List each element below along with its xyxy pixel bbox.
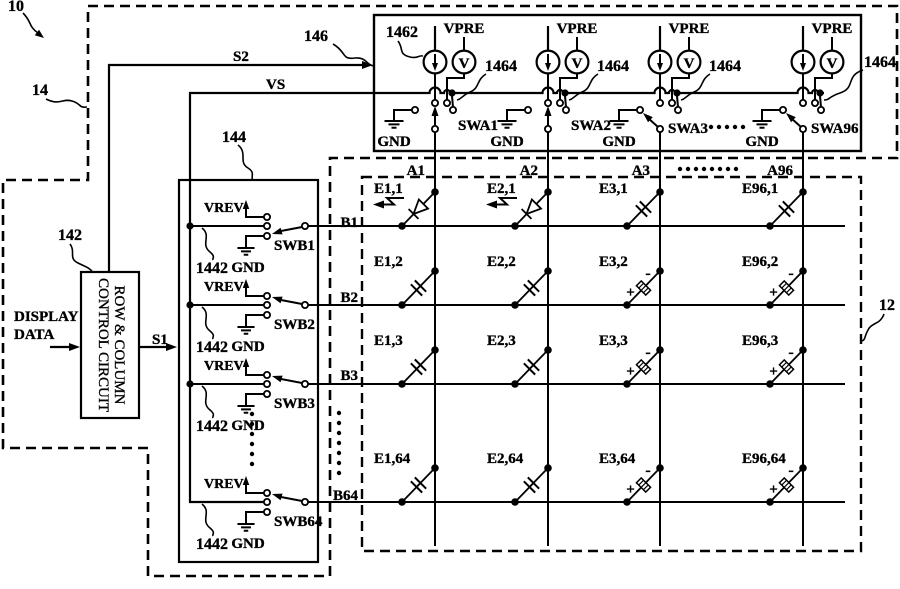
VREV source for switch SWB3: [204, 358, 267, 375]
element E2,3 (capacitor element): [487, 333, 552, 388]
ground for switch SWA3: [602, 110, 637, 150]
VS bus line inside box 146 (with hops): [374, 88, 824, 93]
label 142 with leader: [58, 227, 92, 271]
svg-text:-: -: [645, 344, 650, 361]
element E96,2 (charged EL element): [742, 254, 807, 309]
wire: current source down to switch contact (A1): [434, 73, 436, 100]
svg-text:E3,64: E3,64: [599, 451, 636, 467]
element E3,2 (charged EL element): [599, 254, 664, 309]
svg-text:GND: GND: [231, 260, 265, 276]
label 1442 for SWB3 with leader: [196, 386, 228, 435]
signal VS wire: [190, 77, 374, 180]
svg-text:CONTROL CIRCUIT: CONTROL CIRCUIT: [95, 278, 111, 412]
svg-text:GND: GND: [745, 134, 779, 150]
display panel boundary 12 (dashed box): [362, 177, 861, 551]
current source 1462 unit for column A1: [424, 26, 447, 73]
element E3,1 (capacitor element): [599, 181, 664, 230]
ground for switch SWB64: [231, 512, 267, 552]
element E96,3 (charged EL element): [742, 333, 807, 388]
svg-text:E2,1: E2,1: [487, 181, 516, 197]
svg-text:GND: GND: [490, 134, 524, 150]
svg-text:SWA3: SWA3: [668, 121, 708, 137]
svg-text:SWA96: SWA96: [811, 121, 859, 137]
switch SWB2 contacts: [264, 293, 270, 318]
node: VS bus tap dot for SWA3: [673, 89, 680, 107]
svg-text:E1,64: E1,64: [374, 451, 411, 467]
svg-text:E96,3: E96,3: [742, 333, 778, 349]
svg-text:1464: 1464: [864, 54, 896, 71]
label 1464 (SWA96) with leader: [824, 54, 896, 100]
svg-text:VPRE: VPRE: [669, 21, 710, 37]
wire: VPRE source down to switch contact (A96): [815, 73, 832, 100]
svg-text:1442: 1442: [196, 418, 228, 435]
svg-text:E3,2: E3,2: [599, 254, 628, 270]
column line A96: [802, 132, 804, 546]
switch SWA3 contacts: [637, 100, 681, 113]
node: bus junction at row y=305: [186, 301, 193, 308]
ground for switch SWA1: [377, 110, 412, 150]
element E3,64 (charged EL element): [599, 451, 664, 506]
svg-text:GND: GND: [377, 134, 411, 150]
svg-text:SWB1: SWB1: [274, 238, 315, 254]
row line B3: [308, 383, 845, 385]
switch SWA2 pole and arm: [545, 106, 612, 134]
svg-text:SWB3: SWB3: [274, 396, 315, 412]
node: bus junction at row y=384: [186, 380, 193, 387]
switch SWB1 pole and arm: [272, 223, 315, 254]
svg-text:E1,1: E1,1: [374, 181, 403, 197]
svg-text:10: 10: [8, 0, 24, 15]
switch SWB64 contacts: [264, 490, 270, 515]
svg-text:V: V: [684, 56, 695, 72]
vertical ellipsis left of display panel: [337, 411, 341, 475]
svg-text:B2: B2: [340, 290, 358, 306]
element E2,2 (capacitor element): [487, 254, 552, 309]
svg-text:SWA2: SWA2: [571, 118, 611, 134]
node: VS bus tap dot for SWA1: [448, 89, 455, 107]
ground for switch SWB1: [231, 236, 267, 276]
svg-text:1442: 1442: [196, 260, 228, 277]
node: bus junction at row y=226: [186, 222, 193, 229]
svg-text:+: +: [769, 364, 778, 380]
svg-text:+: +: [626, 482, 635, 498]
wire: current source down to switch contact (A96): [802, 73, 804, 100]
svg-text:A2: A2: [520, 163, 538, 179]
svg-text:S2: S2: [233, 49, 249, 65]
svg-text:-: -: [645, 265, 650, 282]
svg-text:E3,1: E3,1: [599, 181, 628, 197]
svg-text:S1: S1: [152, 332, 168, 348]
svg-text:-: -: [788, 462, 793, 479]
svg-text:VPRE: VPRE: [812, 21, 853, 37]
element E2,64 (capacitor element): [487, 451, 552, 506]
ground for switch SWA96: [745, 110, 780, 150]
svg-text:-: -: [788, 344, 793, 361]
svg-text:DISPLAY: DISPLAY: [14, 309, 79, 325]
svg-text:V: V: [827, 56, 838, 72]
wire: VPRE source down to switch contact (A2): [560, 73, 577, 100]
svg-text:14: 14: [32, 82, 48, 99]
svg-text:V: V: [459, 56, 470, 72]
VREV source for switch SWB2: [204, 279, 267, 296]
svg-text:A3: A3: [632, 163, 650, 179]
ellipsis between SWA3 and SWA96: [709, 125, 745, 129]
label 1442 for SWB64 with leader: [196, 504, 228, 553]
svg-text:142: 142: [58, 227, 82, 244]
signal S2 wire and arrow: [109, 49, 373, 272]
svg-text:GND: GND: [602, 134, 636, 150]
svg-text:E96,2: E96,2: [742, 254, 778, 270]
current source 1462 unit for column A2: [537, 26, 560, 73]
svg-text:ROW & COLUMN: ROW & COLUMN: [111, 286, 127, 405]
column line A2: [547, 132, 549, 546]
label 1464 (SWA1) with leader: [457, 58, 517, 100]
label 1464 (SWA3) with leader: [681, 58, 741, 100]
svg-text:VREV: VREV: [204, 477, 244, 492]
voltage source VPRE for column A3: [669, 21, 710, 73]
label 1462 with leader: [386, 24, 423, 58]
svg-text:E3,3: E3,3: [599, 333, 628, 349]
svg-text:1442: 1442: [196, 339, 228, 356]
ellipsis between A3 and A96: [678, 167, 738, 171]
svg-text:+: +: [626, 364, 635, 380]
switch SWA3 pole and arm: [643, 113, 708, 137]
column line A3: [659, 132, 661, 546]
voltage source VPRE for column A2: [557, 21, 598, 73]
svg-text:-: -: [645, 462, 650, 479]
svg-text:VREV: VREV: [204, 280, 244, 295]
svg-text:GND: GND: [231, 418, 265, 434]
switch SWB2 pole and arm: [272, 297, 315, 333]
switch SWB3 contacts: [264, 372, 270, 397]
svg-text:E2,64: E2,64: [487, 451, 524, 467]
element E1,3 (capacitor element): [374, 333, 439, 388]
svg-text:VREV: VREV: [204, 359, 244, 374]
ground for switch SWB3: [231, 394, 267, 434]
label 144 with leader: [222, 129, 253, 180]
svg-text:VPRE: VPRE: [557, 21, 598, 37]
svg-text:VPRE: VPRE: [444, 21, 485, 37]
DISPLAY DATA input label: [14, 309, 79, 343]
row line B1: [308, 225, 845, 227]
svg-text:SWB64: SWB64: [274, 514, 323, 530]
svg-text:146: 146: [304, 28, 328, 45]
svg-text:12: 12: [879, 297, 895, 314]
element E3,3 (charged EL element): [599, 333, 664, 388]
signal S1 wire and arrow: [139, 332, 177, 351]
element E96,64 (charged EL element): [742, 451, 807, 506]
svg-text:B3: B3: [340, 368, 358, 384]
svg-text:-: -: [788, 265, 793, 282]
node: VS bus tap dot for SWA2: [561, 89, 568, 107]
svg-text:1462: 1462: [386, 24, 418, 41]
svg-text:GND: GND: [231, 339, 265, 355]
wire: VPRE source down to switch contact (A3): [672, 73, 689, 100]
row & column control circuit box 142: [81, 272, 139, 418]
switch SWA96 pole and arm: [786, 113, 859, 137]
row driver box 144: [179, 180, 318, 562]
svg-text:VS: VS: [266, 77, 285, 93]
label 12 with leader: [862, 297, 895, 341]
current source 1462 unit for column A3: [649, 26, 672, 73]
element E2,1 (LED): [486, 181, 552, 230]
VREV source for switch SWB1: [204, 200, 267, 217]
svg-text:1442: 1442: [196, 536, 228, 553]
svg-text:E1,3: E1,3: [374, 333, 403, 349]
wire: bus to switch contact row y=226: [190, 225, 264, 227]
ground for switch SWB2: [231, 315, 267, 355]
wire: current source down to switch contact (A2): [547, 73, 549, 100]
column driver box 146: [374, 15, 861, 151]
VREV source for switch SWB64: [204, 476, 267, 493]
switch SWA2 contacts: [525, 100, 569, 113]
column line A1: [434, 132, 436, 546]
svg-text:DATA: DATA: [14, 327, 54, 343]
current source 1462 unit for column A96: [792, 26, 815, 73]
label 1442 for SWB1 with leader: [196, 228, 228, 277]
label 10 with arrow: [8, 0, 44, 38]
VS bus inside box 144 (vertical distribution): [190, 180, 264, 502]
switch SWA1 contacts: [412, 100, 456, 113]
voltage source VPRE for column A96: [812, 21, 853, 73]
svg-text:GND: GND: [231, 536, 265, 552]
element E1,2 (capacitor element): [374, 254, 439, 309]
element E1,64 (capacitor element): [374, 451, 439, 506]
wire: current source down to switch contact (A3): [659, 73, 661, 100]
wire: bus to switch contact row y=384: [190, 383, 264, 385]
svg-text:E96,64: E96,64: [742, 451, 786, 467]
display data input arrow: [50, 343, 80, 351]
element E1,1 (LED): [373, 181, 439, 230]
label 1442 for SWB2 with leader: [196, 307, 228, 356]
switch SWA96 contacts: [780, 100, 824, 113]
switch SWB3 pole and arm: [272, 376, 315, 412]
svg-text:1464: 1464: [597, 58, 629, 75]
svg-text:+: +: [769, 482, 778, 498]
svg-text:1464: 1464: [709, 58, 741, 75]
svg-text:V: V: [572, 56, 583, 72]
label 14 with leader: [32, 82, 87, 107]
label 146 with leader: [304, 28, 373, 66]
switch SWB64 pole and arm: [272, 494, 323, 530]
wire: bus to switch contact row y=305: [190, 304, 264, 306]
ground for switch SWA2: [490, 110, 525, 150]
label 1464 (SWA2) with leader: [569, 58, 629, 100]
svg-text:VREV: VREV: [204, 201, 244, 216]
svg-text:144: 144: [222, 129, 246, 146]
switch SWB1 contacts: [264, 214, 270, 239]
wire: VPRE source down to switch contact (A1): [447, 73, 464, 100]
svg-text:E2,3: E2,3: [487, 333, 516, 349]
svg-text:E2,2: E2,2: [487, 254, 516, 270]
svg-text:SWA1: SWA1: [458, 118, 498, 134]
svg-text:A96: A96: [767, 163, 793, 179]
svg-text:E96,1: E96,1: [742, 181, 778, 197]
svg-text:+: +: [769, 285, 778, 301]
svg-text:A1: A1: [407, 163, 425, 179]
svg-text:SWB2: SWB2: [274, 317, 315, 333]
node: VS bus tap dot for SWA96: [816, 89, 823, 107]
switch SWA1 pole and arm: [432, 106, 499, 134]
svg-text:B64: B64: [333, 488, 359, 504]
vertical ellipsis inside box 144: [250, 412, 254, 466]
svg-text:1464: 1464: [485, 58, 517, 75]
svg-text:E1,2: E1,2: [374, 254, 403, 270]
element E96,1 (capacitor element): [742, 181, 807, 230]
svg-text:+: +: [626, 285, 635, 301]
row line B2: [308, 304, 845, 306]
row line B64: [308, 501, 845, 503]
voltage source VPRE for column A1: [444, 21, 485, 73]
svg-text:B1: B1: [340, 215, 358, 231]
